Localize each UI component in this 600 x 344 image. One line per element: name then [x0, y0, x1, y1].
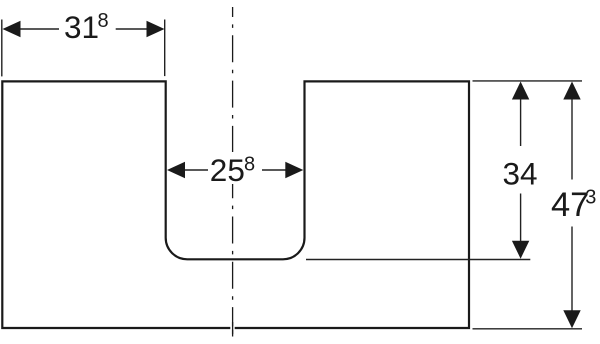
- svg-text:25: 25: [210, 152, 245, 188]
- svg-text:8: 8: [98, 10, 109, 32]
- svg-text:3: 3: [585, 186, 596, 208]
- svg-text:31: 31: [64, 9, 99, 45]
- svg-text:8: 8: [244, 154, 255, 176]
- svg-text:34: 34: [503, 156, 538, 192]
- svg-text:47: 47: [551, 186, 589, 224]
